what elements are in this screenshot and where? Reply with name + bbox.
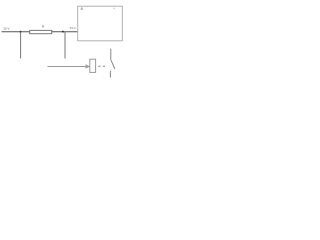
switch S1 bottom terminal wire [109,71,111,78]
svg-text:P1.0: P1.0 [70,26,76,30]
resistor R [30,30,52,33]
wire [52,31,78,33]
switch S1 top terminal wire [110,49,112,60]
mechanical link dashed [98,65,105,67]
wire [64,32,66,59]
relay coil K1 [90,59,96,72]
wire [2,31,30,33]
node B junction dot [62,31,64,33]
node A junction dot [20,31,22,33]
IC U1 box [78,6,123,41]
svg-text:10 V: 10 V [3,26,9,30]
wire [20,32,22,59]
switch S1 blade [111,60,115,69]
signal arrow [48,66,89,68]
svg-text:8: 8 [81,7,83,11]
